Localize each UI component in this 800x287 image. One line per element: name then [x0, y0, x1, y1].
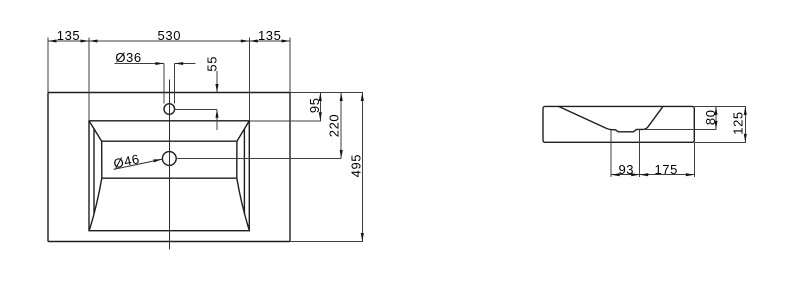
- 495 dimension line: [361, 93, 363, 242]
- bowl depth reference line: [644, 128, 717, 130]
- bowl front bottom edge: [102, 177, 237, 179]
- arrow 220 down: [340, 150, 343, 159]
- bowl back bottom edge: [102, 140, 237, 142]
- bottom dimension line 93/175: [611, 174, 694, 176]
- extension line drain recess left: [610, 130, 612, 177]
- bowl left front flare curve: [90, 178, 102, 229]
- svg-text:175: 175: [654, 162, 678, 177]
- side top edge extension right: [694, 105, 746, 107]
- dia36 dimension line right part: [175, 63, 196, 65]
- svg-text:495: 495: [348, 154, 363, 178]
- drain hole circle: [162, 152, 176, 166]
- faucet center reference line: [175, 108, 217, 110]
- arrow 495 up: [361, 93, 364, 102]
- arrow 93 left: [611, 173, 620, 176]
- arrow 135 left at x48 pointing left: [48, 39, 57, 42]
- arrow 530 right at x249 pointing right: [241, 39, 250, 42]
- countertop top edge extension right: [290, 92, 363, 94]
- 125 dimension line: [744, 106, 746, 142]
- bowl right front flare curve: [237, 178, 249, 229]
- svg-text:80: 80: [703, 109, 718, 125]
- countertop bottom edge extension right: [290, 241, 363, 243]
- countertop outline (top view): [48, 93, 290, 242]
- 220 dimension line: [340, 93, 342, 159]
- dia36 dimension line left part: [115, 63, 164, 65]
- svg-text:135: 135: [258, 28, 282, 43]
- arrow 125 down: [744, 134, 747, 143]
- svg-text:Ø36: Ø36: [115, 50, 141, 65]
- arrow 125 up: [744, 106, 747, 115]
- 95 dimension line: [319, 93, 321, 121]
- svg-text:135: 135: [57, 28, 81, 43]
- arrow 135b left at x249 pointing left: [249, 39, 257, 42]
- svg-text:Ø46: Ø46: [112, 151, 141, 171]
- side bottom edge extension right: [694, 141, 746, 143]
- 80 dimension line: [715, 106, 717, 129]
- svg-text:125: 125: [730, 111, 745, 135]
- arrow dia36 left pointing right: [155, 62, 164, 65]
- 55 dim upper segment: [216, 71, 218, 93]
- faucet hole circle: [164, 104, 175, 115]
- arrow 175 left: [640, 173, 649, 176]
- side view body outline: [543, 106, 694, 142]
- extension line side right edge down: [693, 142, 695, 177]
- arrow 220 up: [340, 93, 343, 102]
- rim top edge extension right: [249, 120, 320, 122]
- arrow 175 right: [686, 173, 695, 176]
- svg-text:95: 95: [307, 97, 322, 113]
- 55 dim lower segment: [216, 109, 218, 130]
- arrow 135b right at x290 pointing right: [282, 39, 291, 42]
- top dimension line 135/530/135: [48, 40, 290, 42]
- extension line drain recess right: [639, 130, 641, 177]
- bowl left wall silhouette line: [93, 129, 95, 214]
- extension line right countertop edge: [289, 38, 291, 93]
- dia36 left tangent extension: [163, 64, 165, 104]
- svg-text:220: 220: [327, 114, 342, 138]
- bowl top-right corner diagonal: [237, 121, 249, 141]
- arrow 80 up: [714, 106, 717, 115]
- arrow 95 up: [319, 93, 322, 102]
- arrow 135 right at x89 pointing right: [81, 39, 90, 42]
- extension line left countertop edge: [47, 38, 49, 93]
- arrow 55 up to hole center: [215, 109, 218, 118]
- arrow dia46 leader pointing at drain: [153, 159, 162, 162]
- bowl left wall inner edge: [101, 141, 103, 178]
- dia36 right tangent extension: [174, 64, 176, 104]
- arrow 80 down: [714, 121, 717, 129]
- bowl right wall silhouette line: [243, 129, 245, 214]
- arrow 495 down: [361, 233, 364, 242]
- extension line rim right: [248, 38, 250, 121]
- side view bowl profile: [559, 106, 664, 131]
- arrow 55 down to countertop edge: [215, 84, 218, 93]
- svg-text:55: 55: [205, 56, 220, 72]
- bowl top-left corner diagonal: [89, 121, 102, 141]
- arrow 93 right: [631, 173, 640, 176]
- bowl right wall inner edge: [236, 141, 238, 178]
- basin rim rectangle: [89, 121, 249, 231]
- vertical centerline of basin: [168, 80, 170, 250]
- svg-text:93: 93: [618, 162, 634, 177]
- svg-text:530: 530: [158, 28, 182, 43]
- drain center reference line: [176, 158, 341, 160]
- arrow dia36 right pointing left: [175, 62, 184, 65]
- arrow 95 down: [319, 112, 322, 121]
- dia46 leader line: [114, 159, 162, 169]
- arrow 530 left at x89 pointing left: [89, 39, 98, 42]
- extension line rim left: [88, 38, 90, 121]
